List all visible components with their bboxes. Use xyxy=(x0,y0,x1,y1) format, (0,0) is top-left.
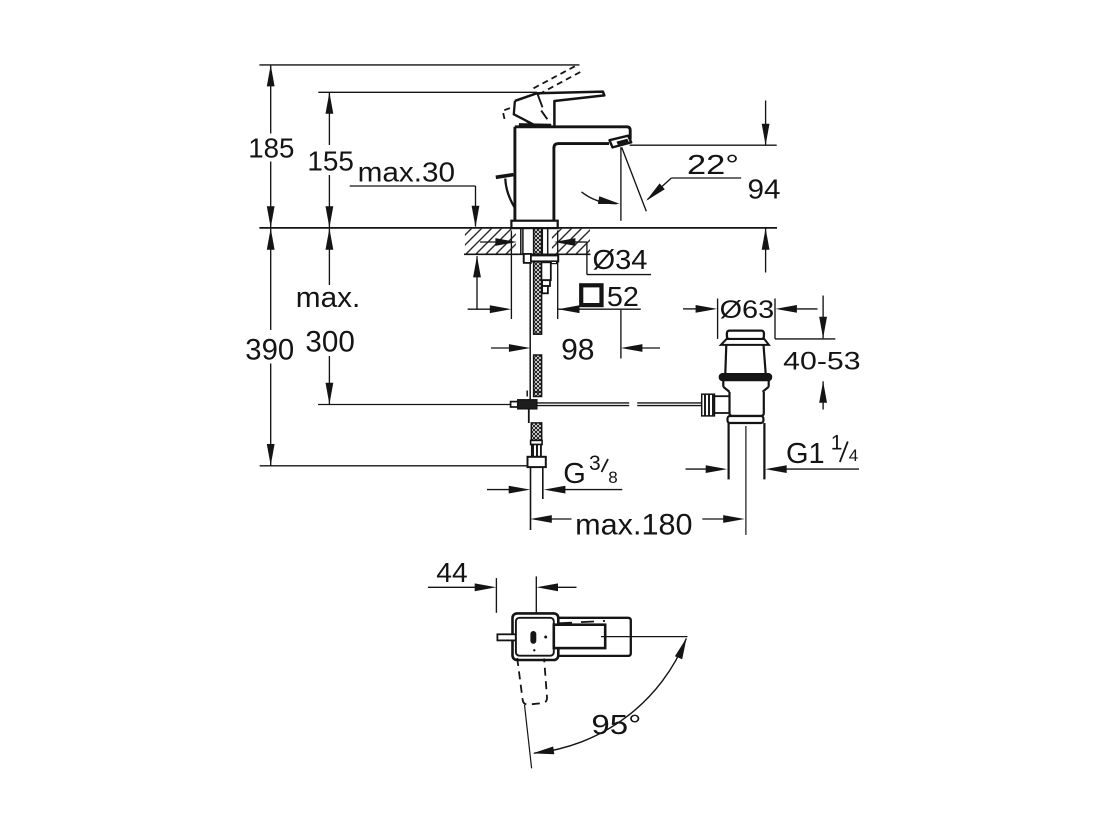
drain pop-up cap xyxy=(727,331,764,339)
top view centerline xyxy=(601,636,688,638)
counter hatch right patch xyxy=(552,229,590,254)
top view cartridge capsule xyxy=(530,631,536,644)
95 degree arc xyxy=(534,639,686,754)
dim O34 arrows at counter hole xyxy=(480,241,498,243)
top view rotated body dashed xyxy=(517,658,547,705)
drain side port xyxy=(714,395,729,397)
faucet body right edge xyxy=(552,147,555,221)
drain tailpipe xyxy=(727,423,729,479)
handle crease lines xyxy=(537,93,542,107)
mounting nut stack xyxy=(541,262,550,280)
svg-text:52: 52 xyxy=(607,281,639,312)
spout aerator xyxy=(610,136,632,148)
svg-text:155: 155 xyxy=(307,146,354,177)
hose end knurled section xyxy=(532,445,541,457)
dim 98 line with outside arrows xyxy=(491,347,513,349)
svg-text:40-53: 40-53 xyxy=(783,347,860,375)
drain flange xyxy=(721,339,769,345)
svg-text:max.180: max.180 xyxy=(575,508,692,541)
drain locknut xyxy=(728,416,764,423)
svg-text:G: G xyxy=(563,458,586,490)
dim max.300 vertical line xyxy=(328,228,330,285)
water stream slanted line 22deg xyxy=(622,147,647,211)
supply hose braided middle xyxy=(534,355,542,397)
dim max.300 arrows xyxy=(326,228,334,250)
top view hidden lever dashes xyxy=(559,621,605,623)
counter top line xyxy=(259,227,777,229)
hose end collar xyxy=(531,440,543,444)
svg-text:3: 3 xyxy=(589,452,601,475)
dim O34 leader corner xyxy=(586,242,588,275)
top view spout rectangle xyxy=(555,618,631,656)
svg-text:G1: G1 xyxy=(786,438,825,470)
drain knurled nut xyxy=(702,394,715,416)
svg-text:94: 94 xyxy=(748,173,781,204)
rod coupler at faucet xyxy=(511,402,518,407)
washer plate xyxy=(524,255,558,261)
svg-text:185: 185 xyxy=(248,133,294,164)
faucet body top and spout xyxy=(515,127,630,140)
dim 98 extension line xyxy=(620,310,622,359)
top view body square xyxy=(513,613,559,660)
drain centerline xyxy=(745,426,747,535)
svg-text:max.: max. xyxy=(296,282,361,314)
top view pull rod knob xyxy=(497,634,515,640)
dim 155 vertical line xyxy=(328,92,330,145)
svg-text:4: 4 xyxy=(849,446,858,465)
dim text sq52 square symbol xyxy=(581,285,601,305)
svg-text:Ø63: Ø63 xyxy=(720,296,775,324)
ref line max.30 label leader xyxy=(350,185,476,187)
supply pipe lines xyxy=(530,467,532,530)
faucet base plate xyxy=(511,221,557,228)
counter bottom line xyxy=(464,253,591,255)
sq52 extension line left xyxy=(510,231,512,320)
ref line top of lever (185 reference) xyxy=(259,64,579,66)
arrow max.30 leader down to counter xyxy=(472,206,480,228)
svg-text:8: 8 xyxy=(608,468,617,487)
dim 94 vertical with outside arrows xyxy=(765,101,767,146)
stream swivel arc xyxy=(582,192,618,204)
dim max.180 line and arrows xyxy=(530,515,552,523)
dim 44 line with outside arrows xyxy=(428,586,478,588)
dim max.30 lower arrow below counter xyxy=(476,256,478,310)
drain O-ring xyxy=(719,374,771,381)
ref line flange top for 40-53 xyxy=(775,338,835,340)
shank sleeve lines in counter xyxy=(520,229,522,256)
G3-8 nut xyxy=(528,457,546,467)
supply hose braided upper xyxy=(534,228,542,334)
dim O63 arrows xyxy=(683,308,699,310)
ref line top of body (155 reference) xyxy=(318,91,537,93)
hose lower braided segment xyxy=(531,423,541,441)
top view lever rectangle xyxy=(554,625,605,648)
dim 155 arrows xyxy=(326,92,334,114)
top view detail dots xyxy=(544,636,547,639)
drain body below O-ring xyxy=(722,381,724,387)
ref line spout outlet height (94 reference) xyxy=(630,144,777,146)
dim G1-1/4 arrows at tailpipe xyxy=(686,468,709,470)
svg-text:Ø34: Ø34 xyxy=(593,244,648,275)
svg-text:44: 44 xyxy=(436,557,467,588)
svg-text:95°: 95° xyxy=(591,709,641,740)
dim 44 extension lines xyxy=(495,578,497,613)
handle base gap line xyxy=(519,123,551,127)
water stream vertical line xyxy=(620,147,622,221)
ref line pop-up rod coupling (max.300 reference) xyxy=(318,404,511,406)
rotated handle axis line xyxy=(525,705,532,769)
dim 22deg leader xyxy=(671,177,741,179)
dim 185 arrows xyxy=(267,65,275,87)
pop-up pull rod knob xyxy=(496,175,514,178)
top view inner contour xyxy=(516,618,554,656)
svg-text:1: 1 xyxy=(831,432,843,455)
pop-up rod under counter xyxy=(529,256,531,401)
dim G3-8 arrows xyxy=(487,489,512,491)
drain valve body xyxy=(730,392,764,416)
handle dashed lower-left outline xyxy=(503,108,510,122)
dim 390 arrows xyxy=(267,228,275,250)
dim sq52 line with outside arrows xyxy=(468,308,493,310)
ref line bottom of supply hose (390 reference) xyxy=(260,465,528,467)
rod stub below coupler xyxy=(528,409,530,423)
horizontal pop-up rod to drain xyxy=(537,402,629,404)
dim 390 vertical line below counter xyxy=(270,228,272,330)
dim 185 vertical line xyxy=(270,65,272,134)
faucet body left edge xyxy=(513,127,516,221)
handle raised position dashed xyxy=(534,65,579,89)
sq52 extension line right xyxy=(557,231,559,320)
svg-text:22°: 22° xyxy=(687,149,739,180)
svg-text:300: 300 xyxy=(305,326,354,359)
svg-text:390: 390 xyxy=(245,333,294,366)
pop-up pull rod xyxy=(505,179,514,208)
svg-text:max.30: max.30 xyxy=(358,156,456,187)
svg-text:98: 98 xyxy=(561,333,594,366)
counter hatch left patch xyxy=(465,229,516,254)
handle left edge xyxy=(514,101,534,125)
dim 40-53 outside arrows xyxy=(822,296,824,339)
drain upper body xyxy=(725,345,726,374)
handle lever solid xyxy=(515,92,604,127)
spout underside xyxy=(554,144,609,149)
dim O63 extension lines xyxy=(717,299,719,339)
